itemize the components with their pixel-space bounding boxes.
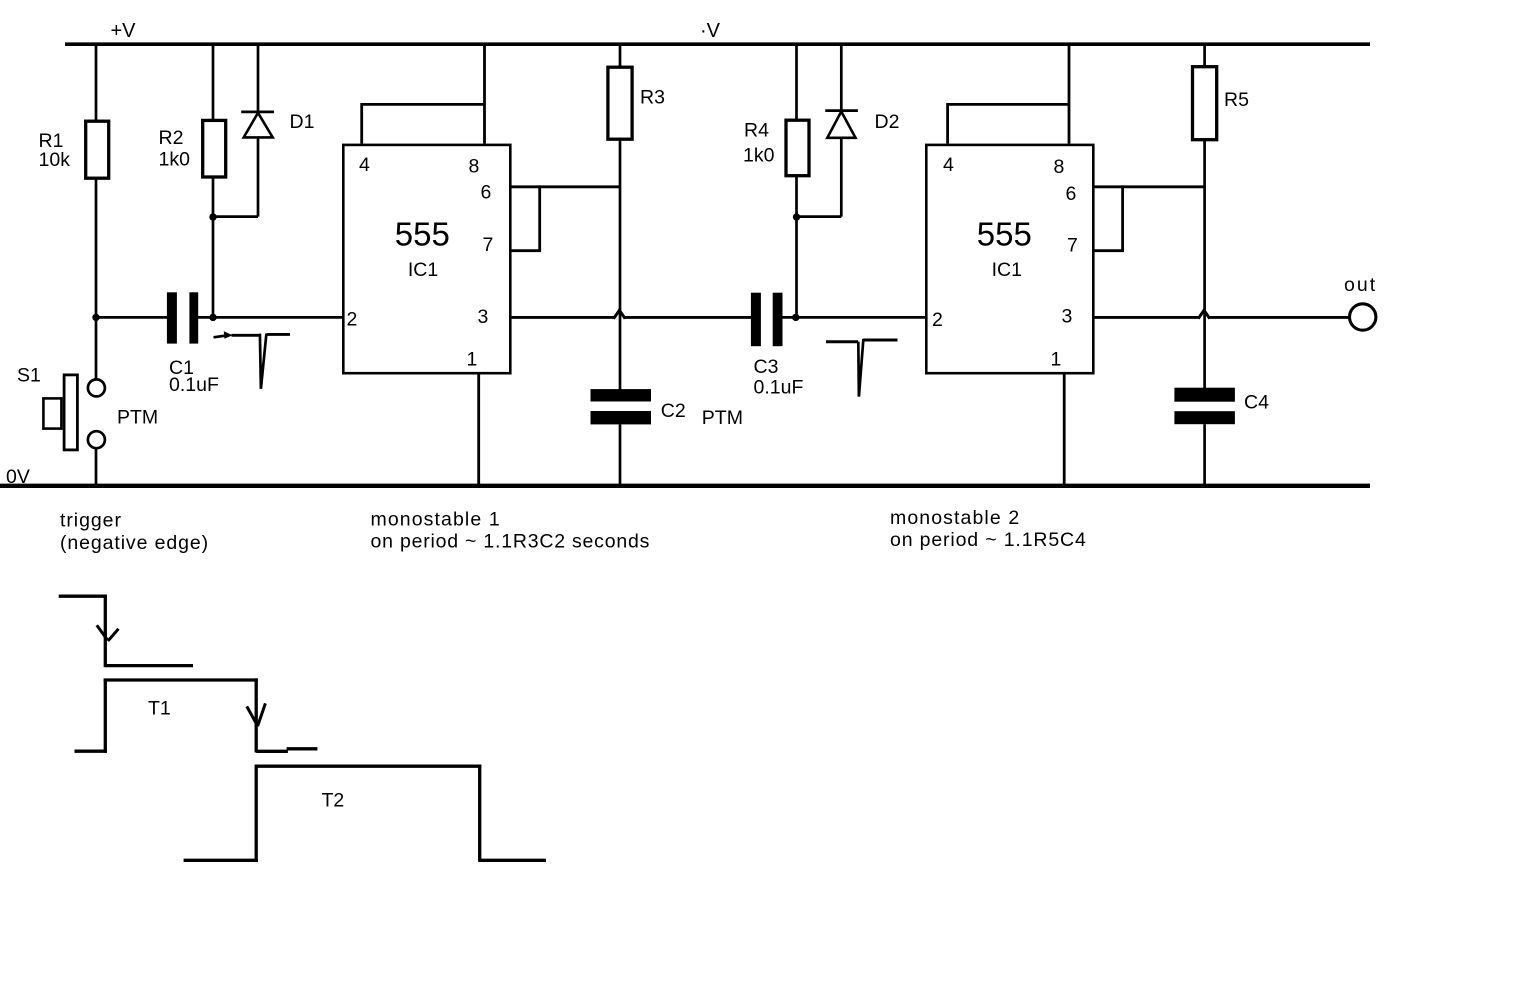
svg-text:2: 2 <box>932 309 943 331</box>
wire IC1 pin1 to 0V <box>477 375 480 486</box>
wire +V to R3 <box>619 43 622 67</box>
switch S1 actuator bar <box>64 375 77 450</box>
svg-text:8: 8 <box>469 155 480 177</box>
waveform T1 falling edge <box>255 678 258 752</box>
wire +V to R1 <box>95 43 98 121</box>
wire +V to IC2 pin8 <box>1068 43 1071 144</box>
svg-text:trigger: trigger <box>60 510 122 532</box>
output terminal circle <box>1350 304 1376 330</box>
svg-text:IC1: IC1 <box>408 259 438 281</box>
wire +V to D1 cathode <box>257 43 260 112</box>
svg-text:2: 2 <box>347 309 358 331</box>
capacitor C3 plate right <box>773 293 783 347</box>
wire R5 to C4 <box>1203 140 1206 389</box>
wire +V to R2 <box>212 43 215 121</box>
capacitor C4 bottom plate <box>1174 411 1235 424</box>
wire IC2 pin3 to out <box>1209 316 1349 319</box>
svg-text:R3: R3 <box>640 87 665 109</box>
svg-text:T2: T2 <box>322 789 345 811</box>
waveform T2 low left <box>184 859 258 862</box>
svg-text:on period ~ 1.1R3C2 seconds: on period ~ 1.1R3C2 seconds <box>371 531 651 553</box>
wire +V to IC1 pin8 <box>483 43 486 144</box>
waveform T2 rising edge <box>255 766 258 862</box>
junction dot R4/D2 node <box>793 213 800 220</box>
waveform trigger falling edge <box>104 595 107 668</box>
junction dot R4/C3 node <box>792 314 799 321</box>
svg-text:R5: R5 <box>1224 89 1249 111</box>
waveform T1 arrow <box>247 703 266 726</box>
svg-text:555: 555 <box>977 215 1032 252</box>
junction dot R2/C1 node <box>209 314 216 321</box>
wire C2 to 0V <box>619 424 622 485</box>
wire R1 to trigger node <box>95 178 98 317</box>
trigger pulse sketch 1 arrowhead <box>224 331 233 339</box>
svg-text:555: 555 <box>395 215 450 252</box>
svg-text:1: 1 <box>467 348 478 370</box>
wire IC2 pin1 to 0V <box>1063 375 1066 486</box>
wire +V to R4 <box>795 43 798 121</box>
switch S1 top contact <box>88 379 105 396</box>
wire IC1 pin6 to pin7 U-link <box>512 185 540 250</box>
wire hop over R3/C2 line <box>614 310 626 318</box>
wire IC2 pin3 output <box>1095 316 1199 319</box>
svg-text:4: 4 <box>943 154 954 176</box>
waveform T1 low right b <box>287 747 318 750</box>
wire D2 anode down <box>840 138 843 217</box>
wire R2 to trigger line <box>212 177 215 317</box>
capacitor C2 bottom plate <box>591 411 652 424</box>
switch S1 button <box>43 398 61 428</box>
555 timer IC1 box (monostable 1) <box>343 145 510 373</box>
svg-text:D2: D2 <box>875 111 900 133</box>
trigger pulse sketch 2 left line <box>826 340 858 343</box>
svg-text:C2: C2 <box>661 400 686 422</box>
svg-text:6: 6 <box>481 181 492 203</box>
wire IC2 pin6 to pin7 U-link <box>1095 185 1123 250</box>
svg-text:D1: D1 <box>290 111 315 133</box>
waveform T1 rising edge <box>104 680 107 753</box>
svg-text:out: out <box>1344 274 1377 296</box>
svg-text:PTM: PTM <box>117 407 158 429</box>
trigger pulse sketch 1 left line <box>232 334 260 337</box>
wire IC1 pin6 to R3/C2 node <box>512 185 621 188</box>
wire IC2 pin4 loop to pin8 rail <box>948 104 1069 143</box>
555 timer IC2 box (monostable 2) <box>926 145 1093 373</box>
resistor R3 <box>608 67 632 139</box>
wire R3 to C2 <box>619 139 622 390</box>
capacitor C1 plate left <box>167 292 177 343</box>
svg-text:R4: R4 <box>744 120 769 142</box>
svg-text:C4: C4 <box>1244 392 1269 414</box>
svg-text:7: 7 <box>483 234 494 256</box>
wire S1 to 0V <box>95 448 98 485</box>
svg-text:1k0: 1k0 <box>159 149 191 171</box>
trigger pulse sketch 1 right line <box>267 333 291 336</box>
resistor R1 <box>86 121 109 178</box>
waveform trigger low segment <box>105 664 193 667</box>
diode D2 cathode bar <box>825 109 858 112</box>
waveform trigger arrow <box>97 625 119 641</box>
svg-text:3: 3 <box>478 306 489 328</box>
svg-text:0.1uF: 0.1uF <box>169 374 219 396</box>
wire IC1 pin3 output <box>512 316 615 319</box>
svg-text:+V: +V <box>111 20 137 42</box>
waveform trigger high segment <box>59 595 107 598</box>
wire +V to R5 <box>1203 43 1206 67</box>
wire IC1 pin3 to C3 <box>625 316 752 319</box>
+V supply rail <box>65 42 1370 46</box>
svg-text:0V: 0V <box>6 466 30 488</box>
diode D1 triangle <box>244 113 273 138</box>
waveform T2 falling edge <box>478 765 481 862</box>
capacitor C3 plate left <box>751 293 761 347</box>
resistor R5 <box>1193 67 1217 140</box>
trigger pulse sketch 2 spike <box>858 339 863 397</box>
svg-text:3: 3 <box>1062 305 1073 327</box>
wire R4 to C3 node <box>795 177 798 318</box>
svg-text:monostable 1: monostable 1 <box>371 509 501 531</box>
diode D1 cathode bar <box>241 111 274 114</box>
ground rail 0V <box>0 484 1370 488</box>
svg-text:10k: 10k <box>39 149 71 171</box>
svg-text:1k0: 1k0 <box>743 145 775 167</box>
capacitor C1 plate right <box>189 292 198 343</box>
wire D2 to R4 node <box>795 215 841 218</box>
wire hop over R5/C4 line <box>1198 310 1210 318</box>
trigger pulse sketch 2 right line <box>863 339 897 342</box>
diode D2 triangle <box>827 112 855 138</box>
svg-text:monostable 2: monostable 2 <box>890 507 1020 529</box>
svg-text:7: 7 <box>1067 234 1078 256</box>
svg-text:S1: S1 <box>17 365 41 387</box>
trigger pulse sketch 1 spike <box>260 334 267 389</box>
svg-text:IC1: IC1 <box>992 259 1022 281</box>
waveform T2 low right <box>480 859 546 862</box>
svg-text:T1: T1 <box>148 698 171 720</box>
wire IC2 pin6 to R5/C4 node <box>1095 185 1205 188</box>
wire C4 to 0V <box>1203 424 1206 485</box>
svg-text:0.1uF: 0.1uF <box>754 377 804 399</box>
wire trigger node to C1 <box>96 316 168 319</box>
wire IC1 pin4 loop to pin8 rail <box>362 104 485 143</box>
svg-text:(negative edge): (negative edge) <box>60 532 209 554</box>
wire D1 to R2 node <box>212 215 258 218</box>
svg-text:1: 1 <box>1051 348 1062 370</box>
resistor R2 <box>203 120 226 177</box>
trigger pulse sketch 1 arrow shaft <box>214 336 227 338</box>
wire +V to D2 cathode <box>840 43 843 111</box>
svg-text:6: 6 <box>1066 183 1077 205</box>
svg-text:8: 8 <box>1054 156 1065 178</box>
wire trigger node to S1 <box>95 317 98 379</box>
svg-text:·V: ·V <box>700 20 721 42</box>
svg-text:R2: R2 <box>159 127 184 149</box>
capacitor C2 top plate <box>591 389 652 401</box>
waveform T1 high segment <box>104 678 258 681</box>
wire D1 anode down <box>257 137 260 216</box>
svg-text:4: 4 <box>359 154 370 176</box>
wire C3 to IC2 pin2 <box>783 316 926 319</box>
junction dot trigger node left <box>92 314 99 321</box>
svg-text:on period ~ 1.1R5C4: on period ~ 1.1R5C4 <box>890 529 1087 551</box>
waveform T2 high segment <box>255 765 482 768</box>
capacitor C4 top plate <box>1174 388 1235 402</box>
resistor R4 <box>786 120 809 176</box>
waveform T1 low right a <box>256 750 288 753</box>
wire C1 to IC1 pin2 <box>198 316 343 319</box>
svg-text:PTM: PTM <box>702 407 743 429</box>
junction dot R2/D1 node <box>209 213 216 220</box>
waveform T1 low left <box>75 750 108 753</box>
svg-text:C3: C3 <box>754 356 779 378</box>
switch S1 bottom contact <box>88 431 105 448</box>
